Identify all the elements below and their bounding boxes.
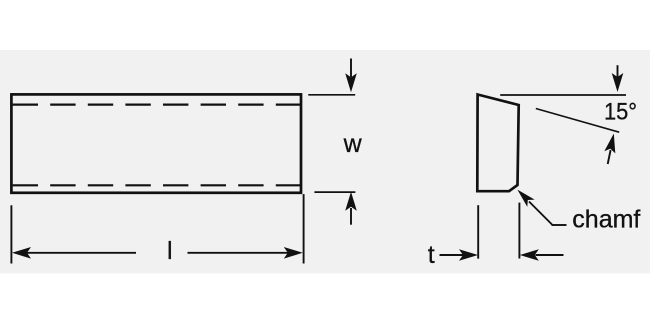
svg-text:w: w (343, 130, 363, 158)
15 deg sloped construction line (536, 109, 619, 133)
svg-text:t: t (428, 241, 435, 269)
w dimension lower arrow (points up) (345, 192, 357, 225)
t dimension right extension line (518, 203, 520, 259)
angle upper arrow (points down) (612, 65, 624, 92)
svg-text:chamf: chamf (572, 206, 640, 234)
chamfer leader arrow (517, 190, 566, 225)
w dimension extension line top (308, 94, 355, 96)
hidden line top (dashed) (13, 103, 301, 105)
l dimension right extension line (303, 194, 305, 263)
svg-text:15°: 15° (604, 98, 637, 125)
horizontal reference line (500, 94, 626, 96)
l dimension line left segment with left arrow (12, 247, 136, 259)
l dimension left extension line (10, 205, 12, 263)
side view outline (profile with 15 deg face and chamfer) (477, 95, 518, 192)
gray drawing band (0, 50, 650, 273)
w dimension upper arrow (points down) (345, 59, 357, 93)
angle lower arrow (points up, slanted) (604, 134, 615, 165)
top view outline (rectangle) (11, 94, 301, 192)
svg-text:l: l (167, 237, 173, 265)
t dimension right arrow (points left) (520, 249, 564, 261)
t dimension left arrow (points right) (440, 249, 479, 261)
hidden line bottom (dashed) (13, 184, 301, 186)
w dimension extension line bottom (314, 191, 355, 193)
t dimension left extension line (477, 205, 479, 259)
l dimension line right segment with right arrow (188, 247, 303, 259)
